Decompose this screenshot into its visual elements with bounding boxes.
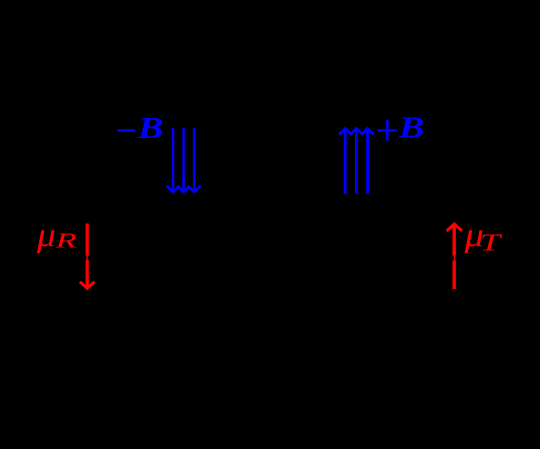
svg-text:B: B [398,110,425,145]
field arrow up 3 [361,128,374,193]
svg-text:μ: μ [36,216,56,254]
field arrow down 3 [188,128,201,192]
chemical potential arrow down (mu_R) [80,224,95,289]
black barrier line over right red arrow [452,256,458,261]
field arrow up 1 [339,128,352,193]
svg-text:R: R [54,229,77,253]
thin red thread across right pinch [454,256,456,261]
black barrier line over left red arrow [85,256,91,260]
svg-text:B: B [137,110,164,145]
chemical potential arrow up (mu_T) [447,224,462,289]
thin red thread across left pinch [86,256,87,260]
label +B : plus sign [378,129,397,132]
label -B : minus sign [118,129,136,132]
svg-text:T: T [480,229,504,256]
field arrow up 2 [350,128,363,193]
field arrow down 2 [177,128,190,192]
field arrow down 1 [167,128,180,192]
